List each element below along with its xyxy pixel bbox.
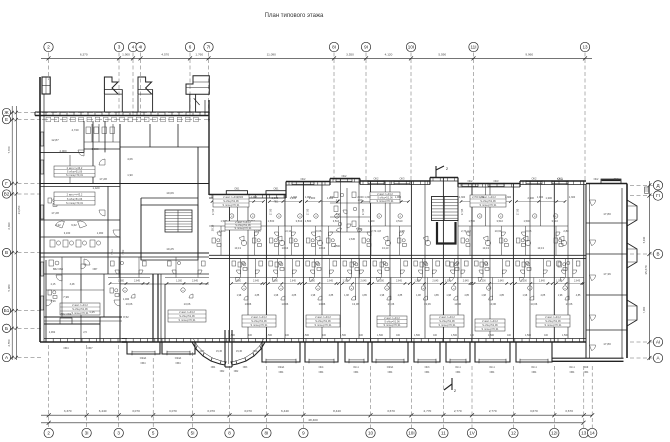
svg-text:2,645: 2,645	[349, 238, 356, 241]
svg-text:ОБ4: ОБ4	[570, 371, 575, 374]
svg-text:S площ=70,31: S площ=70,31	[251, 323, 269, 327]
svg-text:ОБ2: ОБ2	[234, 371, 239, 373]
svg-text:ОБ4: ОБ4	[354, 371, 359, 374]
apartment table M5	[430, 315, 464, 327]
apartment table M6	[536, 315, 570, 327]
svg-text:8: 8	[228, 431, 231, 436]
left bath row walls	[91, 124, 93, 142]
svg-text:1,060: 1,060	[97, 231, 104, 235]
svg-text:S общ=51,06: S общ=51,06	[72, 307, 88, 311]
left lower west rooms	[61, 257, 63, 317]
svg-text:ВБ2 ОБ4: ВБ2 ОБ4	[61, 312, 72, 316]
top wall bumps	[226, 191, 247, 195]
apartment interiors lower row	[230, 277, 267, 279]
svg-text:1,500: 1,500	[525, 334, 532, 337]
svg-text:1,98: 1,98	[399, 229, 405, 233]
left lower apartments	[108, 277, 150, 279]
svg-text:14: 14	[590, 431, 596, 436]
right top window bump	[601, 179, 621, 184]
svg-text:5,590: 5,590	[438, 53, 446, 57]
bottom axis dashed lines	[48, 345, 50, 428]
svg-text:1,300: 1,300	[118, 280, 125, 283]
svg-text:1,300: 1,300	[414, 280, 421, 283]
svg-text:1,500: 1,500	[303, 334, 310, 337]
svg-text:2: 2	[47, 431, 50, 436]
right balconies	[627, 200, 637, 226]
svg-text:8,440: 8,440	[333, 409, 341, 413]
svg-text:3,48: 3,48	[70, 283, 75, 286]
svg-text:5,940: 5,940	[642, 236, 646, 243]
svg-text:1,300: 1,300	[445, 280, 452, 283]
svg-text:7,760: 7,760	[7, 146, 11, 153]
svg-text:7І: 7І	[207, 45, 211, 50]
top dimension line	[41, 57, 592, 59]
staircase left	[165, 210, 192, 232]
svg-text:6,440: 6,440	[99, 409, 107, 413]
svg-text:4,85: 4,85	[292, 294, 297, 297]
svg-text:5: 5	[152, 431, 155, 436]
svg-text:10І: 10І	[408, 431, 414, 436]
svg-text:4,06: 4,06	[127, 157, 133, 161]
svg-text:1,500: 1,500	[414, 334, 421, 337]
svg-text:S площ=70,31: S площ=70,31	[66, 201, 84, 205]
svg-text:1,062: 1,062	[49, 330, 56, 334]
svg-text:ОБ4: ОБ4	[279, 371, 284, 374]
svg-text:S площ=70,31: S площ=70,31	[235, 226, 253, 230]
roof block C	[186, 76, 209, 95]
svg-text:S общ=51,06: S общ=51,06	[384, 320, 400, 324]
svg-text:ОК3: ОК3	[614, 178, 619, 181]
svg-text:S площ=70,31: S площ=70,31	[315, 323, 333, 327]
staircase middle	[432, 197, 459, 221]
svg-text:1,000: 1,000	[92, 147, 99, 151]
top wall window ticks	[211, 195, 213, 199]
svg-text:1,300: 1,300	[459, 196, 466, 199]
svg-text:21,050: 21,050	[17, 205, 21, 214]
svg-text:S площ=70,31: S площ=70,31	[179, 318, 197, 322]
svg-text:2,770: 2,770	[424, 409, 432, 413]
svg-text:1,460: 1,460	[123, 298, 130, 301]
svg-text:2 жил.=+43,2: 2 жил.=+43,2	[72, 303, 88, 307]
svg-text:2,770: 2,770	[489, 409, 497, 413]
svg-text:2,000 1,300: 2,000 1,300	[357, 196, 371, 199]
svg-text:9,62: 9,62	[71, 223, 77, 227]
right axis dashed stubs	[630, 184, 653, 186]
right section interior	[586, 222, 627, 224]
svg-text:1,960: 1,960	[537, 196, 544, 199]
svg-text:2 жил.=+43,2: 2 жил.=+43,2	[67, 193, 83, 197]
svg-text:2,88: 2,88	[563, 229, 569, 233]
apartment table M9	[475, 319, 505, 331]
svg-text:8І: 8І	[332, 45, 336, 50]
svg-text:ОК2: ОК2	[468, 179, 474, 183]
svg-text:17,36: 17,36	[603, 272, 611, 276]
left section interior walls	[40, 151, 84, 153]
svg-text:13,06: 13,06	[454, 302, 461, 306]
svg-text:2,645: 2,645	[253, 280, 260, 283]
svg-text:План типового этажа: План типового этажа	[265, 13, 324, 19]
svg-text:ОК3: ОК3	[400, 177, 406, 181]
svg-text:2,645: 2,645	[498, 280, 505, 283]
svg-text:2,700 1,05: 2,700 1,05	[472, 196, 484, 199]
apartment table M2	[470, 195, 506, 207]
svg-text:10І: 10І	[408, 45, 414, 50]
svg-text:1,300: 1,300	[378, 280, 385, 283]
svg-text:2,770: 2,770	[454, 409, 462, 413]
top axis circles	[44, 42, 53, 51]
svg-text:1,500: 1,500	[340, 334, 347, 337]
svg-text:1,300: 1,300	[505, 196, 512, 199]
svg-text:1,500: 1,500	[523, 219, 530, 223]
svg-text:11,090: 11,090	[267, 53, 277, 57]
svg-text:1,500: 1,500	[268, 219, 275, 223]
svg-text:13,06: 13,06	[282, 302, 289, 306]
svg-text:17,28: 17,28	[51, 211, 59, 215]
svg-text:Б: Б	[5, 326, 8, 331]
svg-text:S площ=70,31: S площ=70,31	[72, 311, 90, 315]
elevator shaft	[152, 274, 154, 342]
svg-text:ОК2: ОК2	[301, 177, 307, 181]
svg-text:1,300: 1,300	[556, 280, 563, 283]
svg-text:1,98: 1,98	[274, 294, 279, 297]
svg-text:2 жил.=+43,2: 2 жил.=+43,2	[179, 310, 195, 314]
svg-text:7,96: 7,96	[50, 299, 56, 303]
svg-text:11І: 11І	[470, 45, 476, 50]
svg-text:2 жил.=+43,2: 2 жил.=+43,2	[377, 192, 393, 196]
svg-text:2,645: 2,645	[327, 280, 334, 283]
svg-text:1,300: 1,300	[235, 280, 242, 283]
svg-text:1,500: 1,500	[451, 334, 458, 337]
narrow section 334-370 small rooms	[330, 202, 371, 204]
svg-text:11: 11	[441, 431, 446, 436]
svg-text:ОБ7: ОБ7	[93, 268, 98, 271]
svg-text:Е: Е	[5, 117, 8, 122]
svg-text:S общ=51,06: S общ=51,06	[482, 323, 498, 327]
section walls middle band	[247, 195, 249, 339]
svg-text:ОК2: ОК2	[374, 177, 380, 181]
svg-text:ОБ4: ОБ4	[425, 371, 430, 374]
apartment table M1b	[225, 220, 261, 230]
svg-text:1,98: 1,98	[237, 294, 242, 297]
svg-text:3: 3	[117, 431, 120, 436]
svg-text:13,13: 13,13	[285, 229, 292, 233]
svg-text:4,85: 4,85	[434, 294, 439, 297]
svg-text:1,98: 1,98	[558, 294, 563, 297]
svg-text:ОК2: ОК2	[342, 174, 348, 178]
svg-text:ОБ3: ОБ3	[253, 351, 258, 353]
svg-text:4,85: 4,85	[541, 294, 546, 297]
svg-text:S площ=70,31: S площ=70,31	[223, 203, 241, 207]
svg-text:ОБ4: ОБ4	[388, 371, 393, 374]
svg-text:S общ=51,06: S общ=51,06	[67, 170, 83, 174]
apartment table M1	[213, 195, 249, 207]
svg-text:ОК4: ОК4	[319, 366, 324, 369]
svg-text:S площ=70,31: S площ=70,31	[545, 323, 563, 327]
svg-text:1,500: 1,500	[377, 334, 384, 337]
svg-text:4,85: 4,85	[499, 294, 504, 297]
svg-text:1,760: 1,760	[195, 53, 203, 57]
svg-text:1,500: 1,500	[368, 219, 375, 223]
svg-text:3,510: 3,510	[496, 219, 503, 223]
svg-text:1,500: 1,500	[305, 219, 312, 223]
svg-text:ОБ4: ОБ4	[176, 362, 182, 365]
svg-text:2 жил.=+43,2: 2 жил.=+43,2	[251, 315, 267, 319]
svg-text:2 жил.=+43,2: 2 жил.=+43,2	[482, 319, 498, 323]
svg-text:1,500: 1,500	[488, 334, 495, 337]
svg-text:2,900: 2,900	[272, 196, 279, 200]
svg-text:ОБ4: ОБ4	[456, 371, 461, 374]
svg-text:ОК3: ОК3	[425, 366, 430, 369]
left bath fixtures	[50, 240, 55, 247]
svg-text:S общ=51,06: S общ=51,06	[223, 199, 239, 203]
svg-text:ОБ4: ОБ4	[319, 371, 324, 374]
top axis dashed lines	[48, 53, 50, 81]
roof turret A	[104, 77, 118, 94]
svg-text:1,420: 1,420	[93, 186, 100, 190]
svg-text:13,06: 13,06	[352, 302, 359, 306]
svg-text:13,13: 13,13	[382, 246, 389, 250]
svg-text:2,645: 2,645	[463, 280, 470, 283]
svg-text:1,960: 1,960	[251, 196, 258, 199]
svg-text:3: 3	[118, 45, 121, 50]
svg-text:3І: 3І	[85, 431, 89, 436]
svg-text:35,670: 35,670	[644, 265, 648, 275]
section cut flag bottom	[444, 378, 452, 390]
svg-text:1,300: 1,300	[291, 196, 298, 199]
middle band bottom wall	[122, 338, 586, 340]
svg-text:3,510: 3,510	[396, 219, 403, 223]
svg-text:17,95: 17,95	[361, 208, 365, 215]
svg-text:4,220: 4,220	[219, 229, 226, 233]
svg-text:S площ=70,31: S площ=70,31	[482, 327, 500, 331]
svg-text:13,06: 13,06	[530, 302, 537, 306]
svg-text:2: 2	[47, 45, 50, 50]
svg-text:ОБ4: ОБ4	[63, 346, 69, 350]
svg-text:S общ=51,06: S общ=51,06	[251, 319, 267, 323]
svg-text:1,98: 1,98	[311, 294, 316, 297]
svg-text:13,13: 13,13	[482, 246, 489, 250]
svg-text:2 жил.=+43,2: 2 жил.=+43,2	[545, 315, 561, 319]
svg-text:1,98: 1,98	[523, 294, 528, 297]
svg-text:1,500: 1,500	[468, 219, 475, 223]
svg-text:ОК4А: ОК4А	[175, 357, 182, 360]
svg-text:15,36: 15,36	[216, 350, 223, 353]
svg-text:1,300: 1,300	[237, 196, 244, 199]
bottom bays right of arc	[262, 342, 300, 362]
svg-text:4,570: 4,570	[161, 53, 169, 57]
svg-text:13,06: 13,06	[245, 302, 252, 306]
bottom total dimension line	[41, 422, 584, 424]
svg-text:S площ=70,31: S площ=70,31	[439, 323, 457, 327]
svg-text:17,28: 17,28	[99, 177, 107, 181]
svg-text:ГІ: ГІ	[656, 193, 660, 198]
svg-text:ОК-1: ОК-1	[489, 366, 495, 369]
shaft below stair	[437, 222, 456, 244]
svg-text:12: 12	[511, 431, 517, 436]
svg-text:13,06: 13,06	[424, 302, 431, 306]
svg-text:9: 9	[302, 431, 305, 436]
svg-text:3,070: 3,070	[244, 409, 252, 413]
corridor walls	[209, 254, 586, 256]
svg-text:1,48: 1,48	[358, 229, 363, 231]
svg-text:17,80: 17,80	[603, 342, 611, 346]
svg-text:2 жил.=+43,2: 2 жил.=+43,2	[384, 316, 400, 320]
svg-text:17,95: 17,95	[211, 208, 215, 215]
svg-text:ОБ1: ОБ1	[234, 187, 240, 190]
apartment table M4	[306, 315, 340, 327]
svg-text:S общ=51,06: S общ=51,06	[315, 319, 331, 323]
apartment interiors upper row	[209, 225, 266, 227]
svg-text:7,060: 7,060	[642, 306, 646, 313]
svg-text:4,85: 4,85	[329, 294, 334, 297]
svg-text:1,98: 1,98	[344, 294, 349, 297]
left section right wall	[208, 100, 210, 195]
svg-text:6,690: 6,690	[7, 222, 11, 229]
svg-text:4,85: 4,85	[398, 294, 403, 297]
svg-text:4: 4	[132, 45, 135, 50]
svg-text:ОБ7: ОБ7	[200, 351, 205, 353]
svg-text:1,98: 1,98	[446, 294, 451, 297]
svg-text:АІ: АІ	[656, 340, 660, 345]
middle band top wall	[209, 194, 286, 196]
svg-text:S площ=70,31: S площ=70,31	[66, 173, 84, 177]
svg-text:4,85: 4,85	[464, 294, 469, 297]
svg-text:S общ=51,06: S общ=51,06	[545, 319, 561, 323]
svg-text:1,300: 1,300	[545, 196, 552, 200]
svg-text:2,645: 2,645	[432, 280, 439, 283]
svg-text:2 жил.=+43,2: 2 жил.=+43,2	[67, 166, 83, 170]
svg-text:10,25: 10,25	[166, 247, 174, 251]
svg-text:2,645: 2,645	[396, 280, 403, 283]
apartment table L2	[54, 192, 95, 205]
apartment table M8	[370, 192, 400, 203]
svg-text:13,13: 13,13	[234, 246, 241, 250]
svg-text:1,300: 1,300	[176, 280, 183, 283]
svg-text:1,90: 1,90	[127, 173, 133, 177]
roof turret B	[138, 77, 152, 94]
svg-text:2,645: 2,645	[539, 280, 546, 283]
svg-text:13,06: 13,06	[184, 302, 191, 306]
svg-text:10: 10	[368, 431, 374, 436]
svg-text:S общ=51,06: S общ=51,06	[67, 197, 83, 201]
svg-text:S площ=70,31: S площ=70,31	[480, 203, 498, 207]
apartment table M3	[242, 315, 276, 327]
svg-text:ОК4А: ОК4А	[278, 366, 285, 369]
svg-text:4,85: 4,85	[255, 294, 260, 297]
svg-text:10,06: 10,06	[166, 191, 174, 195]
svg-text:ОК4А: ОК4А	[140, 357, 147, 360]
section cut flag top	[436, 166, 444, 178]
left axis dashed lines	[11, 112, 42, 114]
svg-text:3,510: 3,510	[333, 219, 340, 223]
svg-text:3,22: 3,22	[55, 223, 61, 227]
svg-text:13: 13	[582, 45, 588, 50]
svg-text:ОБ4: ОБ4	[490, 371, 495, 374]
svg-text:2,15: 2,15	[51, 283, 56, 286]
svg-text:900: 900	[330, 196, 335, 199]
svg-text:3,160: 3,160	[64, 231, 71, 235]
svg-text:2,645: 2,645	[192, 280, 199, 283]
svg-text:8І: 8І	[264, 431, 268, 436]
svg-text:17,95: 17,95	[460, 208, 464, 215]
svg-text:1,900: 1,900	[122, 53, 130, 57]
svg-text:13,06: 13,06	[388, 302, 395, 306]
svg-text:ОБ1: ОБ1	[274, 187, 280, 190]
svg-text:3,510: 3,510	[551, 219, 558, 223]
svg-text:ОБ4: ОБ4	[584, 371, 589, 374]
svg-text:15,36: 15,36	[236, 350, 243, 353]
svg-text:17,95: 17,95	[515, 208, 519, 215]
svg-text:2 жил.=+43,2: 2 жил.=+43,2	[439, 315, 455, 319]
svg-text:2,65: 2,65	[255, 229, 261, 233]
svg-text:ОБ4: ОБ4	[532, 371, 537, 374]
svg-text:8,52: 8,52	[123, 315, 129, 319]
svg-text:6,440: 6,440	[281, 409, 289, 413]
svg-text:В2: В2	[4, 192, 10, 197]
bay central pier	[224, 330, 226, 367]
svg-text:48,400: 48,400	[308, 418, 318, 422]
svg-text:3,070: 3,070	[207, 409, 215, 413]
svg-text:ОБ4: ОБ4	[211, 367, 216, 369]
svg-text:ОК3А: ОК3А	[387, 366, 394, 369]
svg-text:ОБ7: ОБ7	[87, 346, 93, 350]
apartment table L3	[60, 303, 100, 315]
svg-text:1,960: 1,960	[305, 196, 312, 199]
svg-text:1V: 1V	[469, 431, 476, 436]
svg-text:54Ф: 54Ф	[584, 366, 589, 369]
svg-text:ОБ3: ОБ3	[243, 367, 248, 369]
svg-text:2,645: 2,645	[290, 280, 297, 283]
svg-text:1,300: 1,300	[569, 196, 576, 199]
svg-text:1,25: 1,25	[89, 310, 95, 314]
faceted bay (curved)	[192, 342, 225, 365]
svg-text:2,000: 2,000	[60, 149, 67, 153]
svg-text:2,5: 2,5	[83, 330, 87, 334]
svg-text:4,85: 4,85	[576, 294, 581, 297]
svg-text:13,06: 13,06	[525, 229, 532, 233]
svg-text:12,87: 12,87	[51, 138, 59, 142]
bottom wall window ticks	[125, 339, 127, 343]
apartment table M7	[377, 316, 407, 327]
svg-text:4,120: 4,120	[385, 53, 393, 57]
svg-text:4І: 4І	[139, 45, 143, 50]
apartment table L1	[54, 166, 95, 177]
svg-text:12І: 12І	[551, 431, 557, 436]
svg-text:9І: 9І	[364, 45, 368, 50]
svg-text:10,61: 10,61	[495, 229, 502, 233]
svg-text:ОК-1: ОК-1	[353, 366, 359, 369]
svg-text:5,080: 5,080	[7, 284, 11, 291]
svg-text:13,06: 13,06	[319, 302, 326, 306]
left vertical dimension line	[11, 106, 13, 360]
svg-text:ОБ4: ОБ4	[141, 362, 147, 365]
svg-text:1,500: 1,500	[562, 334, 569, 337]
svg-text:6,370: 6,370	[80, 53, 88, 57]
svg-text:28,18: 28,18	[211, 224, 215, 231]
svg-text:4,85: 4,85	[362, 294, 367, 297]
svg-text:1,500: 1,500	[266, 334, 273, 337]
svg-text:2,645: 2,645	[574, 280, 581, 283]
svg-text:ОК-1: ОК-1	[569, 366, 575, 369]
svg-text:В: В	[656, 252, 659, 257]
svg-text:10,06: 10,06	[315, 229, 322, 233]
svg-text:Б1: Б1	[4, 308, 10, 313]
svg-text:1,300: 1,300	[521, 280, 528, 283]
svg-text:1,98: 1,98	[416, 294, 421, 297]
svg-text:5,6 м: 5,6 м	[557, 178, 563, 181]
svg-text:13,06: 13,06	[126, 302, 133, 306]
svg-text:S общ=51,06: S общ=51,06	[439, 319, 455, 323]
